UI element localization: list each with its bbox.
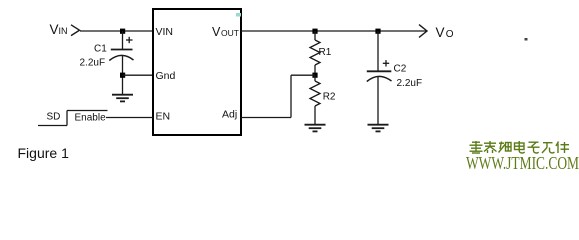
- input arrow: [71, 25, 80, 36]
- svg-text:SD: SD: [47, 112, 61, 123]
- svg-text:R2: R2: [323, 91, 336, 102]
- wire Adj feedback vertical: [290, 75, 292, 117]
- svg-text:2.2uF: 2.2uF: [397, 78, 423, 89]
- wire R1 top lead: [314, 31, 316, 40]
- pin label VOUT: [212, 25, 239, 39]
- enable waveform high segment: [67, 110, 108, 112]
- resistor R2: [310, 81, 320, 106]
- ground (C1): [112, 95, 133, 102]
- regulator U1 body: [153, 9, 241, 135]
- node junction B (C1/Gnd): [120, 73, 125, 78]
- svg-text:V: V: [212, 25, 221, 39]
- wire C1 bottom lead: [122, 56, 124, 95]
- svg-text:Gnd: Gnd: [156, 70, 176, 82]
- svg-text:VIN: VIN: [156, 26, 174, 38]
- svg-text:Enable: Enable: [75, 113, 107, 124]
- svg-text:Figure 1: Figure 1: [18, 145, 70, 161]
- watermark chinese glyphs: [470, 141, 570, 153]
- svg-text:C2: C2: [394, 63, 407, 74]
- ground (C2): [368, 125, 389, 132]
- wire C1 top lead: [122, 31, 124, 50]
- wire R1 bottom lead: [314, 65, 316, 75]
- node VIN label: [50, 22, 68, 37]
- svg-text:R1: R1: [319, 47, 332, 58]
- svg-text:C1: C1: [94, 44, 107, 55]
- wire Adj pin: [241, 117, 291, 119]
- svg-text:V: V: [436, 25, 445, 40]
- decorative teal mark: [236, 13, 241, 17]
- enable waveform rising edge: [66, 111, 68, 126]
- resistor R1: [310, 40, 320, 65]
- enable waveform low segment: [38, 125, 67, 127]
- wire C2 top lead: [377, 31, 379, 71]
- node junction E (R1/R2/Adj): [312, 73, 317, 78]
- capacitor C2: [367, 60, 392, 81]
- capacitor C1: [109, 37, 133, 61]
- node junction C (rail/R1): [312, 29, 317, 34]
- svg-text:EN: EN: [156, 111, 171, 123]
- wire Adj feedback horizontal top: [291, 74, 315, 76]
- svg-text:O: O: [446, 29, 454, 40]
- svg-text:V: V: [50, 22, 59, 37]
- wire C2 bottom lead: [377, 77, 379, 125]
- svg-text:2.2uF: 2.2uF: [80, 57, 106, 68]
- node VO label: [436, 25, 454, 40]
- node junction A (VIN/C1): [120, 29, 125, 34]
- decorative speck: [525, 38, 528, 41]
- svg-text:Adj: Adj: [222, 108, 237, 120]
- ground (R2): [305, 125, 326, 132]
- output arrow: [419, 25, 427, 38]
- wire EN pin: [106, 117, 153, 119]
- wire VOUT rail: [241, 30, 427, 32]
- svg-text:OUT: OUT: [221, 28, 239, 38]
- wire R2 bottom lead: [314, 106, 316, 125]
- wire Gnd pin: [123, 74, 154, 76]
- wire R2 top lead: [314, 75, 316, 81]
- node junction D (rail/C2): [375, 29, 380, 34]
- svg-text:WWW.JTMIC.COM: WWW.JTMIC.COM: [466, 153, 579, 173]
- wire VIN input to IC: [80, 30, 153, 32]
- svg-text:IN: IN: [59, 26, 68, 36]
